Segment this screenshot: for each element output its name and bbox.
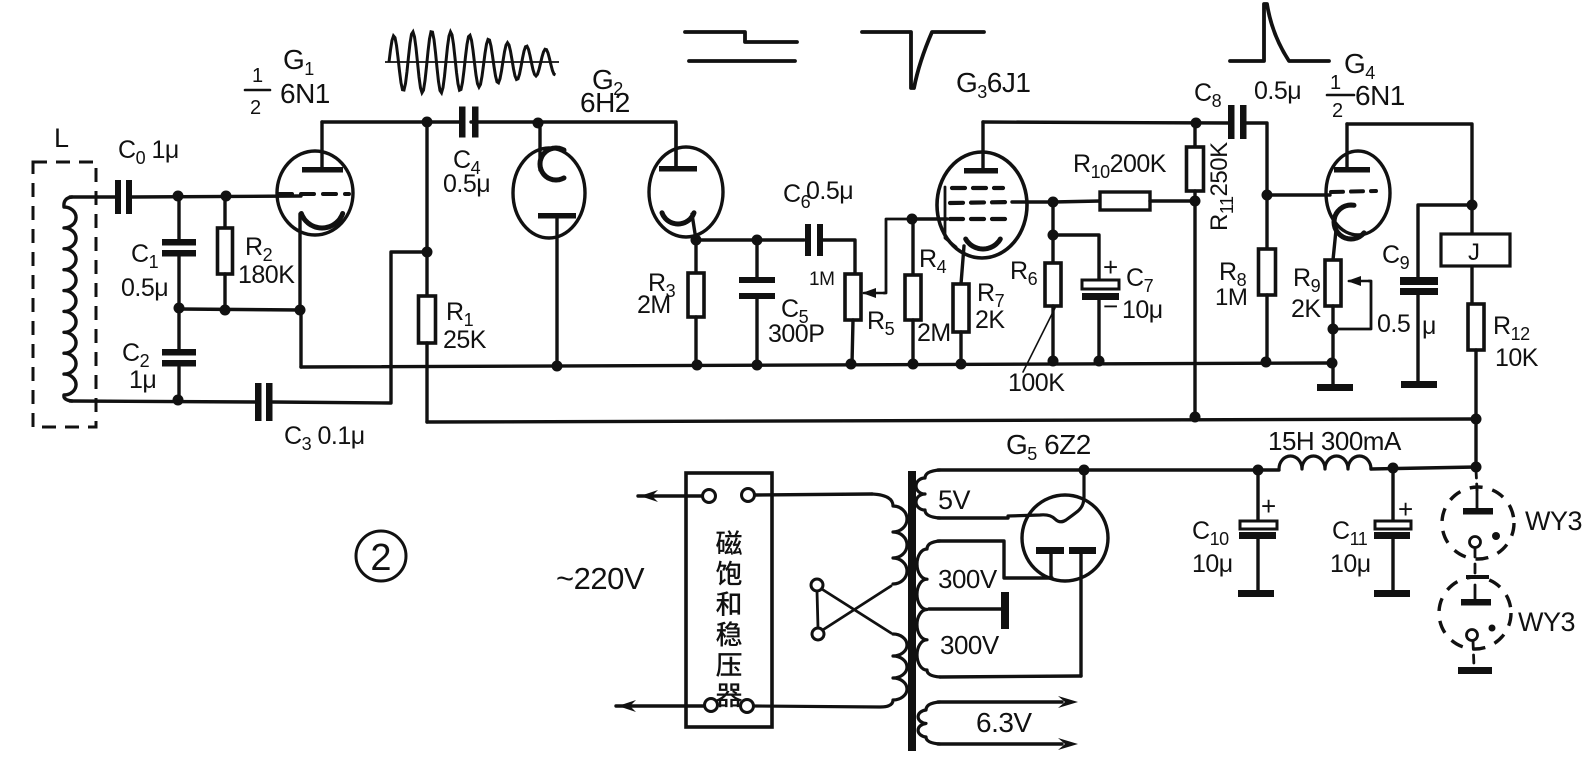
node R11 bottom B+ (1190, 412, 1201, 423)
wire primary diag up (818, 586, 891, 633)
wire G1 plate top (322, 120, 460, 123)
svg-text:R11250K: R11250K (1206, 142, 1237, 231)
wire AC input top (638, 494, 702, 497)
capacitor C1 (162, 239, 196, 246)
svg-text:5V: 5V (938, 485, 971, 515)
waveform step (685, 32, 797, 42)
node R9 rail end (1327, 358, 1338, 369)
svg-text:1: 1 (1330, 72, 1341, 94)
node R6 C7 branch (1048, 230, 1059, 241)
svg-text:2K: 2K (975, 306, 1005, 334)
capacitor C2 (162, 349, 196, 356)
node R9 wiper bottom (1328, 324, 1339, 335)
tube G1 grid dashes (279, 192, 349, 196)
primary tap circle bottom (812, 628, 824, 640)
svg-text:1μ: 1μ (129, 366, 156, 394)
regulator WY3 upper starter dot (1492, 532, 1500, 540)
node screen R6 (1048, 197, 1059, 208)
svg-text:2M: 2M (917, 319, 951, 347)
node B+ corner (1471, 462, 1482, 473)
ground WY3 (1458, 667, 1492, 674)
regulator WY3 lower anode (1474, 585, 1477, 599)
winding 6.3V (918, 702, 940, 744)
node C4 right / G2 cathode (533, 118, 544, 129)
wire WY3 to ground dashed (1473, 641, 1474, 667)
node detector junction (691, 235, 702, 246)
wire B+ line (427, 419, 1476, 422)
tube G2a cathode lead (538, 123, 541, 170)
node C7 bottom (1094, 356, 1105, 367)
svg-text:10μ: 10μ (1330, 550, 1371, 578)
node R7 bottom (956, 359, 967, 370)
svg-text:C0 1μ: C0 1μ (118, 136, 179, 168)
svg-text:0.5μ: 0.5μ (806, 177, 853, 205)
wire G3 plate top (983, 122, 1229, 123)
svg-text:6H2: 6H2 (580, 87, 630, 118)
capacitor C5 (739, 277, 775, 283)
wire screen row (1012, 200, 1053, 203)
capacitor C7 (1082, 280, 1119, 289)
wire C1 stem bottom (177, 256, 180, 309)
stabilizer label vertical (716, 530, 742, 555)
node C5 top (752, 235, 763, 246)
winding 300V lower bottom (940, 676, 1081, 677)
svg-text:−: − (1103, 291, 1118, 321)
wire choke to B+ corner (1371, 467, 1476, 469)
tube G1 cathode (301, 214, 342, 229)
wire C9 branch (1418, 205, 1472, 278)
svg-text:+: + (1398, 494, 1413, 524)
tube G3 grid dashes (952, 186, 1003, 190)
tube G2a cathode (540, 148, 564, 180)
wire detector row (696, 238, 804, 241)
capacitor C8 (1228, 105, 1235, 139)
resistor R10 (1053, 201, 1100, 202)
resistor R11 (1193, 123, 1196, 147)
wire C3 to R1 junction (273, 252, 422, 403)
tube G2b cathode (662, 213, 694, 224)
resistor R1 (425, 122, 428, 296)
tube G5 anode left (1036, 547, 1064, 554)
svg-text:2M: 2M (637, 291, 671, 319)
ground C10 (1238, 590, 1274, 597)
node C1 bottom (174, 303, 185, 314)
node R3 bottom (692, 360, 703, 371)
waveform negative spike (862, 32, 984, 88)
capacitor C3 (255, 383, 262, 421)
capacitor C7 wire (1053, 235, 1099, 281)
winding 300V center tap (929, 607, 1002, 610)
tube G3 envelope (937, 152, 1027, 258)
node R1 mid C3 (422, 247, 433, 258)
wire bottom left (70, 401, 256, 402)
svg-text:1M: 1M (1215, 284, 1247, 311)
waveform positive spike (1230, 4, 1329, 61)
wire primary top (755, 494, 872, 495)
tube G4 cathode lead (1333, 230, 1336, 260)
waveform AM sine (385, 61, 559, 63)
tube G4 grid dashes (1331, 191, 1376, 192)
regulator WY3 upper anode lead (1476, 470, 1477, 490)
ground C11 (1374, 590, 1410, 597)
node R2 top (221, 191, 232, 202)
wire middle node row (179, 309, 301, 310)
wire common rail (301, 363, 1331, 367)
transformer primary lower (755, 634, 907, 707)
tube G1 cathode lead (298, 214, 301, 310)
svg-text:+: + (1261, 491, 1276, 521)
svg-text:G5 6Z2: G5 6Z2 (1006, 429, 1091, 464)
node R10 right (1190, 196, 1201, 207)
node C0-C1 (173, 191, 184, 202)
capacitor C4 (459, 107, 466, 138)
svg-text:J: J (1468, 239, 1480, 266)
wire AC input bottom (616, 704, 704, 707)
pointer line 100K to R6 (1023, 308, 1055, 372)
svg-text:300V: 300V (938, 564, 998, 594)
svg-text:WY3: WY3 (1518, 607, 1575, 637)
svg-text:0.5μ: 0.5μ (1254, 77, 1301, 105)
tube G1 envelope (277, 151, 353, 235)
node G5 B+ takeoff (1079, 465, 1090, 476)
node G4 plate junction (1467, 200, 1478, 211)
tube G5 heater (1008, 472, 1084, 522)
node R4 bottom (908, 359, 919, 370)
capacitor C10 (1256, 470, 1259, 523)
svg-text:25K: 25K (443, 326, 487, 354)
potentiometer R5 (845, 274, 861, 320)
node R2 bottom (220, 305, 231, 316)
winding 300V upper (917, 541, 940, 677)
node G4 grid (1262, 190, 1273, 201)
svg-text:R10200K: R10200K (1073, 150, 1167, 182)
svg-text:~220V: ~220V (556, 561, 645, 596)
node G1 cathode (295, 305, 306, 316)
resistor R2 (223, 196, 226, 228)
capacitor C0 (115, 180, 121, 214)
node R1 top (422, 117, 433, 128)
node C5 bottom (752, 360, 763, 371)
capacitor C9 (1400, 277, 1438, 285)
tube G2a envelope (513, 148, 585, 238)
resistor R12 (1468, 304, 1484, 350)
stabilizer terminal BL (705, 699, 718, 712)
transformer core (908, 471, 916, 751)
node R8 bottom (1261, 357, 1272, 368)
svg-text:L: L (54, 123, 69, 153)
wire primary tap link (817, 591, 818, 628)
svg-text:1: 1 (252, 65, 263, 87)
potentiometer R9 wiper (1349, 280, 1369, 283)
svg-text:μ: μ (1422, 312, 1436, 340)
node R12 bottom B+ (1471, 414, 1482, 425)
svg-text:0.5: 0.5 (1377, 310, 1410, 338)
capacitor C5 stem (755, 240, 758, 278)
node R11 top (1191, 118, 1202, 129)
transformer primary upper (872, 494, 907, 584)
svg-text:6N1: 6N1 (1355, 80, 1405, 111)
svg-text:2K: 2K (1291, 295, 1321, 323)
wire choke line (1084, 468, 1279, 471)
node R5 bottom (846, 359, 857, 370)
resistor R8 (1265, 195, 1268, 249)
regulator tube WY3 upper envelope (1442, 487, 1514, 559)
node R6 bottom (1048, 356, 1059, 367)
tube G3 grid left rail (945, 187, 956, 247)
node C2 bottom (173, 395, 184, 406)
capacitor C6 (805, 224, 811, 256)
svg-text:10μ: 10μ (1192, 550, 1233, 578)
regulator tube WY3 lower envelope (1439, 577, 1511, 649)
wire C6 to R5 (821, 240, 855, 274)
wire antenna top (70, 195, 115, 198)
svg-text:100K: 100K (1008, 369, 1065, 397)
primary tap circle top (811, 579, 823, 591)
svg-text:180K: 180K (238, 261, 295, 289)
svg-text:2: 2 (250, 97, 261, 119)
svg-text:C3 0.1μ: C3 0.1μ (284, 422, 365, 454)
svg-text:+: + (1103, 252, 1118, 282)
tube G2b cathode lead (692, 214, 696, 240)
output jack J wires (1470, 205, 1473, 234)
tube G5 anode right (1069, 547, 1096, 554)
svg-text:G36J1: G36J1 (956, 67, 1030, 102)
potentiometer R5 wiper (864, 292, 884, 295)
ground R9 (1317, 384, 1353, 391)
tube G4 anode (1334, 167, 1370, 173)
svg-text:300V: 300V (940, 630, 1000, 660)
wire B+ down to choke line (1474, 419, 1477, 467)
tube G2a anode (538, 213, 576, 219)
stabilizer box (686, 473, 772, 727)
wire G4 grid row (1267, 193, 1330, 196)
capacitor C11 (1391, 468, 1394, 523)
resistor R7 (959, 282, 962, 285)
regulator WY3 upper cathode (1470, 537, 1481, 548)
svg-text:300P: 300P (768, 320, 824, 348)
wire C0 to grid G1 (132, 196, 301, 197)
inductor L coil (64, 197, 76, 401)
svg-text:10μ: 10μ (1122, 296, 1163, 324)
wire G1 cathode to rail (299, 310, 302, 367)
tube G3 anode (964, 168, 998, 174)
svg-text:WY3: WY3 (1525, 506, 1582, 536)
wire WY3 link dashed (1474, 548, 1477, 580)
resistor R3 (694, 240, 697, 273)
tube G1 anode (302, 167, 343, 173)
ground C9 (1401, 381, 1437, 388)
svg-text:0.5μ: 0.5μ (443, 170, 490, 198)
tube G3 cathode (966, 239, 1001, 249)
tube G2b envelope (649, 147, 723, 237)
wire grid row G3 (912, 217, 947, 220)
tube G2b anode (659, 166, 697, 172)
wire C2 stem bottom (177, 367, 180, 401)
stabilizer terminal BR (741, 700, 754, 713)
svg-text:6.3V: 6.3V (976, 707, 1032, 738)
tube G5 envelope (1022, 495, 1108, 581)
figure number 2 (356, 531, 406, 581)
wire C8 to G4 grid (1245, 123, 1267, 195)
regulator WY3 lower starter dot (1489, 625, 1496, 632)
output jack J box (1441, 234, 1510, 266)
choke 15H 300mA (1279, 456, 1371, 469)
svg-text:2: 2 (370, 537, 391, 579)
node C10 top (1253, 465, 1264, 476)
stabilizer terminal TR (742, 489, 755, 502)
tube G4 cathode (1334, 205, 1364, 239)
svg-text:0.5μ: 0.5μ (121, 274, 168, 302)
svg-text:6N1: 6N1 (280, 78, 330, 109)
wire G4 plate top (1347, 124, 1472, 205)
tube G3 cathode lead (961, 246, 964, 284)
svg-text:15H 300mA: 15H 300mA (1268, 426, 1402, 456)
wire primary diag down (817, 586, 891, 633)
node G3 grid (907, 214, 918, 225)
resistor R4 (911, 219, 914, 275)
stabilizer terminal TL (703, 490, 716, 503)
wire C2 stem top (177, 309, 180, 350)
winding 5V (916, 470, 940, 518)
regulator WY3 lower cathode (1467, 630, 1478, 641)
inductor L dashed box (33, 162, 96, 427)
node C11 top (1388, 463, 1399, 474)
potentiometer R9 (1325, 260, 1341, 306)
node G2a anode rail (552, 361, 563, 372)
svg-text:10K: 10K (1495, 344, 1539, 372)
svg-text:2: 2 (1332, 100, 1343, 122)
resistor R6 (1051, 202, 1054, 263)
svg-text:1M: 1M (809, 269, 834, 290)
tube G4 envelope (1326, 151, 1390, 235)
wire C1 stem top (177, 196, 180, 239)
regulator WY3 upper anode (1463, 508, 1493, 515)
